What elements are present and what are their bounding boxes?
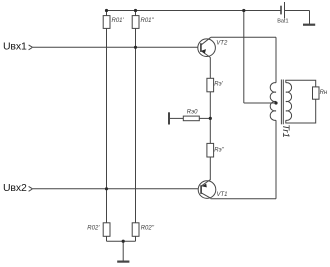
svg-text:Bat1: Bat1 — [277, 19, 288, 25]
svg-text:Uвх1: Uвх1 — [3, 41, 27, 53]
svg-text:R02'': R02'' — [141, 225, 155, 231]
svg-text:Tr1: Tr1 — [280, 124, 291, 138]
svg-text:Uвх2: Uвх2 — [3, 182, 27, 194]
svg-text:R01': R01' — [112, 18, 125, 24]
svg-text:R01'': R01'' — [141, 18, 155, 24]
svg-text:Rэ0: Rэ0 — [187, 109, 198, 115]
svg-text:Rэ': Rэ' — [214, 82, 223, 88]
svg-text:Rэ'': Rэ'' — [214, 148, 224, 154]
svg-text:Rн: Rн — [320, 90, 328, 96]
svg-text:R02': R02' — [87, 225, 100, 231]
svg-text:VT1: VT1 — [217, 192, 228, 198]
svg-text:VT2: VT2 — [216, 41, 228, 47]
